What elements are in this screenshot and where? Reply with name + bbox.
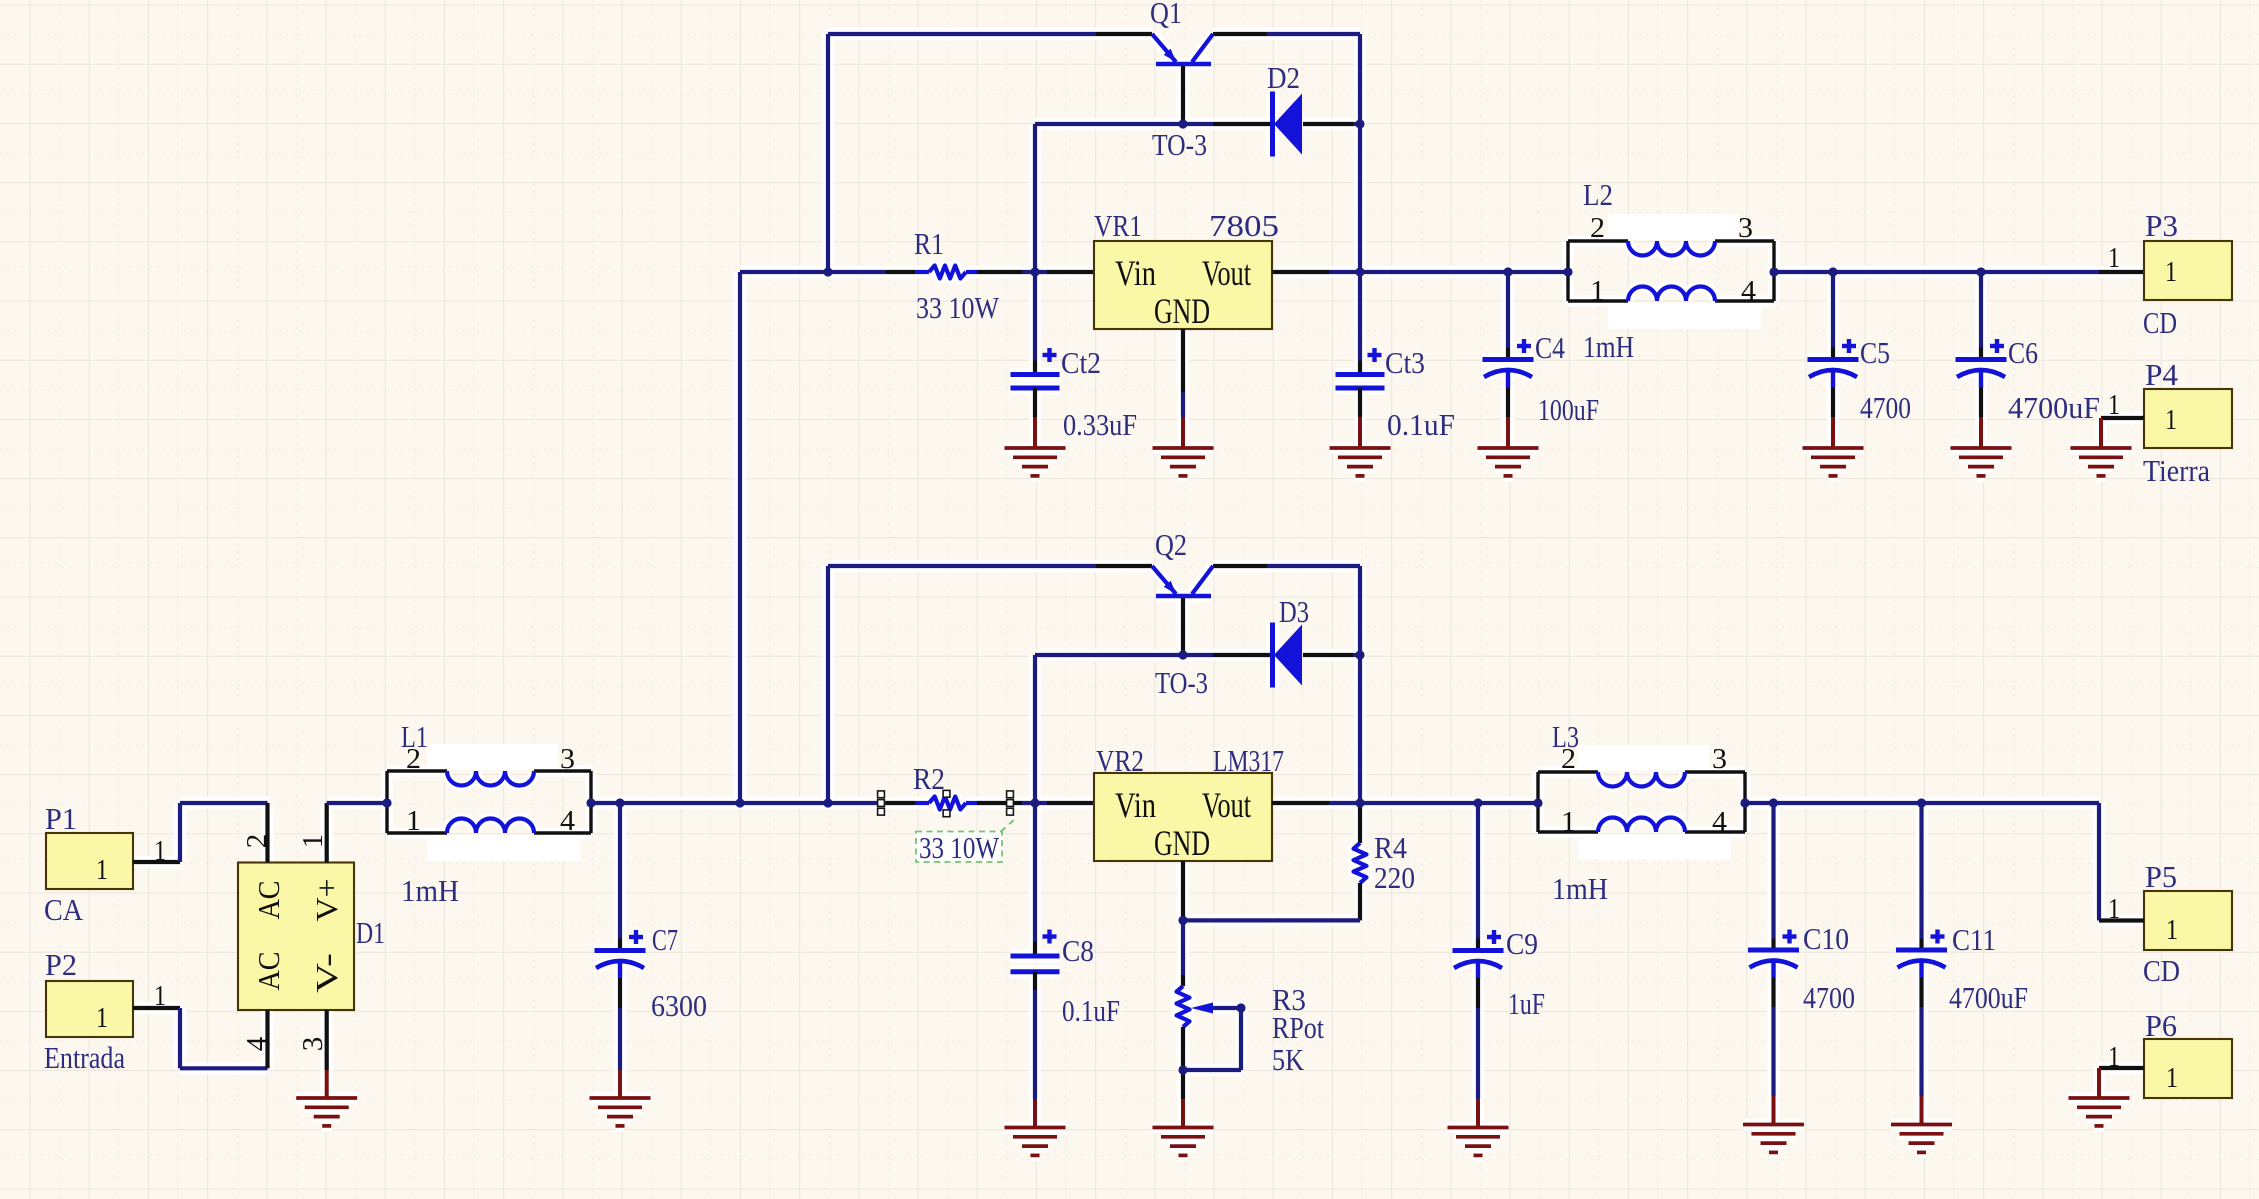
inductor L3: [1538, 745, 1745, 860]
pin 1 label inside P3: [2165, 256, 2177, 288]
label C5: [1860, 335, 1890, 370]
ground C11: [1891, 1096, 1952, 1152]
svg-text:1: 1: [2165, 256, 2177, 288]
label CA (P1): [44, 892, 84, 927]
wire D1 pin1 to L1: [327, 801, 387, 805]
label L2 value 1mH: [1583, 329, 1634, 364]
svg-text:1: 1: [2108, 1041, 2120, 1073]
label D2: [1267, 60, 1300, 95]
capacitor C8: [1011, 803, 1060, 1099]
label 7805: [1209, 208, 1279, 243]
pin 1 (P1) wire: [133, 860, 180, 864]
label Q2: [1155, 527, 1187, 562]
svg-text:Vin: Vin: [1115, 785, 1156, 825]
label TO-3 (Q1): [1152, 127, 1207, 162]
wire P2 to D1 pin4: [180, 1008, 268, 1068]
label C7 value 6300: [651, 988, 707, 1023]
pin name V- (D1): [309, 953, 344, 993]
junction D3-right node: [1355, 650, 1364, 659]
resistor R4: [1354, 803, 1367, 920]
capacitor C9: [1453, 803, 1504, 1099]
svg-text:1: 1: [1561, 806, 1576, 838]
svg-text:4: 4: [1712, 806, 1728, 838]
svg-text:C10: C10: [1803, 921, 1849, 956]
svg-text:P3: P3: [2145, 208, 2178, 243]
label C9: [1506, 926, 1538, 961]
svg-text:TO-3: TO-3: [1152, 127, 1207, 162]
junction C6 node: [1976, 267, 1985, 276]
wire bottom rail: [591, 801, 1094, 805]
pin 1 (L2): [1590, 275, 1605, 307]
wire top rail: [740, 270, 1094, 274]
svg-text:4700: 4700: [1803, 980, 1855, 1015]
resistor R2: [929, 797, 966, 810]
ground VR1: [1153, 417, 1214, 476]
svg-text:220: 220: [1374, 860, 1415, 895]
junction C4 node: [1503, 267, 1512, 276]
label C4 value 100uF: [1538, 392, 1599, 427]
svg-text:V-: V-: [309, 953, 344, 993]
svg-text:1: 1: [2165, 404, 2177, 436]
pin 1 (L3): [1561, 806, 1576, 838]
junction L2 right: [1769, 267, 1778, 276]
svg-text:AC: AC: [251, 881, 286, 920]
inductor L2: [1568, 214, 1774, 329]
svg-text:1: 1: [96, 854, 108, 886]
pin name Vout (VR2): [1202, 785, 1251, 825]
label Q1: [1150, 0, 1182, 30]
junction C10 node: [1769, 798, 1778, 807]
pin 1 (P5) wire: [2099, 918, 2144, 922]
svg-text:33 10W: 33 10W: [919, 830, 1000, 865]
label L3: [1552, 719, 1579, 754]
ground R3: [1153, 1099, 1214, 1155]
svg-text:33 10W: 33 10W: [916, 290, 1000, 325]
junction L1 left: [382, 798, 391, 807]
connector P4: [2144, 389, 2232, 448]
svg-text:R1: R1: [914, 226, 944, 261]
label P6: [2145, 1008, 2177, 1043]
svg-text:VR2: VR2: [1096, 743, 1144, 778]
svg-text:1: 1: [2108, 389, 2120, 421]
svg-text:D3: D3: [1279, 594, 1309, 629]
pin 2 (L1): [406, 743, 421, 775]
label TO-3 (Q2): [1155, 665, 1208, 700]
junction pot bottom node: [1178, 1065, 1187, 1074]
label L2: [1583, 177, 1613, 212]
svg-text:2: 2: [1590, 212, 1605, 244]
pin 2 (L3): [1561, 743, 1576, 775]
junction L1 right: [586, 798, 595, 807]
pin 1 label inside P2: [96, 1002, 108, 1034]
junction C5 node: [1828, 267, 1837, 276]
ground C9: [1448, 1099, 1509, 1155]
pin 2 (D1) wire: [265, 803, 269, 863]
svg-text:Tierra: Tierra: [2143, 453, 2210, 488]
svg-text:4700: 4700: [1860, 390, 1911, 425]
svg-text:RPot: RPot: [1272, 1010, 1324, 1045]
connector P3: [2144, 241, 2232, 300]
ground D1: [296, 1070, 357, 1126]
pin 1 (P4): [2108, 389, 2120, 421]
ground C8: [1005, 1099, 1066, 1155]
svg-text:CA: CA: [44, 892, 84, 927]
svg-text:1: 1: [2166, 1062, 2178, 1094]
label C6 value 4700uF: [2008, 390, 2100, 425]
label Entrada (P2): [44, 1040, 125, 1075]
label Ct3: [1385, 345, 1425, 380]
connector P1: [46, 833, 133, 889]
wire pot bottom: [1181, 1027, 1185, 1099]
potentiometer R3: [1177, 986, 1242, 1027]
wire Q2 left drop: [826, 566, 830, 803]
svg-text:1uF: 1uF: [1508, 986, 1545, 1021]
label R4: [1374, 830, 1407, 865]
svg-text:C8: C8: [1062, 933, 1094, 968]
svg-text:V+: V+: [309, 879, 344, 922]
junction Q2-drop node: [823, 798, 832, 807]
pin name Vin (VR2): [1115, 785, 1156, 825]
label C10 value 4700: [1803, 980, 1855, 1015]
wire pot wiper short: [1183, 1008, 1241, 1070]
pin 1 (P1): [154, 835, 166, 867]
junction D2-right node: [1355, 119, 1364, 128]
wire Q1 top rail: [828, 32, 1360, 36]
ground C5: [1803, 417, 1864, 476]
pin 2 (D1): [241, 834, 273, 849]
svg-text:0.33uF: 0.33uF: [1063, 407, 1137, 442]
svg-text:Ct2: Ct2: [1061, 345, 1101, 380]
label C11 value 4700uF: [1949, 980, 2028, 1015]
junction C11 node: [1917, 798, 1926, 807]
connector P5: [2144, 891, 2232, 950]
svg-text:1mH: 1mH: [401, 873, 459, 908]
svg-text:0.1uF: 0.1uF: [1062, 993, 1120, 1028]
svg-text:6300: 6300: [651, 988, 707, 1023]
svg-text:LM317: LM317: [1213, 743, 1284, 778]
label C4: [1535, 330, 1565, 365]
svg-text:D1: D1: [356, 915, 385, 950]
ground C4: [1478, 417, 1539, 476]
pin 4 (L2): [1741, 275, 1757, 307]
label R4 value 220: [1374, 860, 1415, 895]
label CD (P5): [2143, 953, 2180, 988]
label C8: [1062, 933, 1094, 968]
pin 1 (P3): [2108, 242, 2120, 274]
svg-text:2: 2: [406, 743, 421, 775]
svg-text:CD: CD: [2143, 953, 2180, 988]
label L1: [401, 719, 428, 754]
junction L2 left: [1563, 267, 1572, 276]
svg-text:1: 1: [2108, 242, 2120, 274]
capacitor C11: [1896, 803, 1947, 1096]
pin name GND (VR1): [1154, 291, 1210, 331]
inductor L1: [387, 744, 591, 861]
label C5 value 4700: [1860, 390, 1911, 425]
svg-text:1: 1: [154, 980, 166, 1012]
wire top rail right: [1774, 270, 2144, 274]
pin 1 (P2) wire: [133, 1006, 180, 1010]
wire Vout2: [1272, 801, 1538, 805]
ground C6: [1951, 417, 2012, 476]
label C11: [1952, 922, 1996, 957]
ground P4: [2071, 418, 2132, 476]
pin 3 (L3): [1712, 743, 1727, 775]
junction main-drop node: [735, 798, 744, 807]
label CD (P3): [2143, 305, 2177, 340]
label P5: [2145, 859, 2177, 894]
wire Q2 top rail: [828, 564, 1360, 568]
svg-text:1: 1: [297, 834, 329, 849]
svg-text:C11: C11: [1952, 922, 1996, 957]
pin name V+ (D1): [309, 879, 344, 922]
pin 4 (L1): [560, 805, 576, 837]
ground C10: [1743, 1096, 1804, 1152]
pin 3 (D1): [297, 1037, 329, 1052]
label D1: [356, 915, 385, 950]
pin 1 label inside P4: [2165, 404, 2177, 436]
label Ct3 value 0.1uF: [1387, 407, 1455, 442]
label R3 value 5K: [1272, 1042, 1305, 1077]
wire adj to pot: [1181, 920, 1185, 986]
svg-text:P2: P2: [45, 947, 77, 982]
label C8 value 0.1uF: [1062, 993, 1120, 1028]
svg-text:1: 1: [2166, 914, 2178, 946]
wire Q1 left drop: [826, 34, 830, 272]
svg-text:R2: R2: [913, 761, 945, 796]
svg-text:0.1uF: 0.1uF: [1387, 407, 1455, 442]
svg-text:1: 1: [96, 1002, 108, 1034]
pin 1 (P4) wire: [2101, 416, 2144, 420]
svg-text:P1: P1: [45, 801, 77, 836]
svg-text:1: 1: [2108, 893, 2120, 925]
label C7: [652, 922, 678, 957]
svg-text:Vin: Vin: [1115, 253, 1156, 293]
junction C7 node: [615, 798, 624, 807]
pin 1 (P5): [2108, 893, 2120, 925]
diode D3: [1273, 623, 1303, 688]
pin name AC bottom (D1): [251, 952, 286, 991]
junction adj node: [1178, 916, 1187, 925]
svg-text:VR1: VR1: [1094, 208, 1142, 243]
label C10: [1803, 921, 1849, 956]
svg-text:Ct3: Ct3: [1385, 345, 1425, 380]
bridge rectifier D1 body: [238, 863, 354, 1011]
wire bottom rail right: [1745, 803, 2099, 921]
svg-text:Vout: Vout: [1202, 253, 1251, 293]
pin GND (VR1) wire: [1181, 329, 1185, 417]
svg-text:1: 1: [406, 805, 421, 837]
pin 3 (L1): [560, 743, 575, 775]
junction L3 left: [1533, 798, 1542, 807]
pin 1 (P6) wire: [2099, 1066, 2144, 1070]
svg-text:5K: 5K: [1272, 1042, 1305, 1077]
pin GND (VR2) wire: [1181, 861, 1185, 920]
svg-text:TO-3: TO-3: [1155, 665, 1208, 700]
svg-text:1: 1: [154, 835, 166, 867]
svg-text:4: 4: [560, 805, 576, 837]
pin 3 (L2): [1738, 212, 1753, 244]
ground P6: [2069, 1068, 2130, 1126]
svg-text:C9: C9: [1506, 926, 1538, 961]
label Ct2 value 0.33uF: [1063, 407, 1137, 442]
label LM317: [1213, 743, 1284, 778]
svg-text:C4: C4: [1535, 330, 1565, 365]
label P3: [2145, 208, 2178, 243]
pin 1 (P2): [154, 980, 166, 1012]
label R1: [914, 226, 944, 261]
ground Ct2: [1005, 417, 1066, 476]
junction Vin1 node: [1030, 267, 1039, 276]
label R3 RPot: [1272, 1010, 1324, 1045]
svg-text:2: 2: [1561, 743, 1576, 775]
label VR1: [1094, 208, 1142, 243]
capacitor C4: [1483, 272, 1534, 417]
label L1 value 1mH: [401, 873, 459, 908]
regulator VR2 body: [1094, 773, 1272, 861]
pin 1 label inside P5: [2166, 914, 2178, 946]
label R3: [1272, 982, 1306, 1017]
wire Vout1: [1272, 270, 1568, 274]
junction Vout1 node: [1355, 267, 1364, 276]
label P4: [2145, 357, 2178, 392]
svg-text:GND: GND: [1154, 823, 1210, 863]
svg-text:4700uF: 4700uF: [2008, 390, 2100, 425]
diode D2: [1273, 92, 1303, 157]
svg-text:CD: CD: [2143, 305, 2177, 340]
capacitor Ct2: [1011, 272, 1060, 417]
capacitor C7: [595, 803, 646, 1070]
svg-text:4: 4: [241, 1036, 273, 1051]
svg-text:Entrada: Entrada: [44, 1040, 125, 1075]
svg-text:C5: C5: [1860, 335, 1890, 370]
svg-text:GND: GND: [1154, 291, 1210, 331]
label C6: [2008, 335, 2038, 370]
pin 4 (L3): [1712, 806, 1728, 838]
transistor Q1: [1152, 34, 1213, 64]
label VR2: [1096, 743, 1144, 778]
svg-text:C6: C6: [2008, 335, 2038, 370]
pin name Vout (VR1): [1202, 253, 1251, 293]
svg-text:P6: P6: [2145, 1008, 2177, 1043]
junction Q1-drop node: [823, 267, 832, 276]
pin 1 (P6): [2108, 1041, 2120, 1073]
svg-text:4: 4: [1741, 275, 1757, 307]
selection handles R2: [878, 790, 1014, 816]
svg-text:3: 3: [560, 743, 575, 775]
connector P2: [46, 981, 133, 1037]
svg-text:D2: D2: [1267, 60, 1300, 95]
pin 4 (D1) wire: [265, 1010, 269, 1068]
pin 2 (L2): [1590, 212, 1605, 244]
pin Q1 base: [1181, 66, 1185, 124]
pin name Vin (VR1): [1115, 253, 1156, 293]
wire P1 to D1 pin2: [180, 803, 268, 862]
wire Q1 right drop: [1358, 34, 1362, 272]
pin 4 (D1): [241, 1036, 273, 1051]
wire Q2 right drop: [1358, 566, 1362, 803]
capacitor C10: [1748, 803, 1799, 1096]
pin 1 (L1): [406, 805, 421, 837]
pin 3 (D1) wire: [325, 1010, 329, 1070]
svg-text:3: 3: [1712, 743, 1727, 775]
svg-text:1mH: 1mH: [1583, 329, 1634, 364]
svg-text:7805: 7805: [1209, 208, 1279, 243]
svg-text:100uF: 100uF: [1538, 392, 1599, 427]
junction L3 right: [1740, 798, 1749, 807]
regulator VR1 body: [1094, 241, 1272, 329]
junction Vout2 node: [1355, 798, 1364, 807]
svg-text:Q2: Q2: [1155, 527, 1187, 562]
svg-text:3: 3: [1738, 212, 1753, 244]
pin 1 label inside P6: [2166, 1062, 2178, 1094]
pin 1 label inside P1: [96, 854, 108, 886]
svg-text:P4: P4: [2145, 357, 2178, 392]
svg-text:C7: C7: [652, 922, 678, 957]
wire adj net: [1183, 918, 1360, 922]
wire D2 net: [1035, 124, 1360, 272]
ground Ct3: [1330, 417, 1391, 476]
svg-text:1mH: 1mH: [1552, 871, 1608, 906]
junction Q2 base node: [1178, 650, 1187, 659]
svg-text:AC: AC: [251, 952, 286, 991]
svg-text:2: 2: [241, 834, 273, 849]
junction wiper node: [1236, 1003, 1245, 1012]
label R1 value 33 10W: [916, 290, 1000, 325]
pin name AC top (D1): [251, 881, 286, 920]
label P2: [45, 947, 77, 982]
svg-text:Vout: Vout: [1202, 785, 1251, 825]
svg-text:4700uF: 4700uF: [1949, 980, 2028, 1015]
svg-text:P5: P5: [2145, 859, 2177, 894]
wire top rail left: [738, 272, 742, 803]
label Ct2: [1061, 345, 1101, 380]
svg-text:1: 1: [1590, 275, 1605, 307]
pin 1 (D1) wire: [325, 803, 329, 863]
label C9 value 1uF: [1508, 986, 1545, 1021]
resistor R1: [929, 266, 966, 279]
svg-text:3: 3: [297, 1037, 329, 1052]
capacitor C5: [1808, 272, 1859, 417]
capacitor C6: [1956, 272, 2007, 417]
wire D3 net: [1035, 655, 1360, 803]
pin 1 (D1): [297, 834, 329, 849]
pin name GND (VR2): [1154, 823, 1210, 863]
connector P6: [2144, 1039, 2232, 1098]
pin Q2 base: [1181, 598, 1185, 655]
label L3 value 1mH: [1552, 871, 1608, 906]
label Tierra (P4): [2143, 453, 2210, 488]
transistor Q2: [1152, 566, 1213, 596]
label P1: [45, 801, 77, 836]
junction C9 node: [1473, 798, 1482, 807]
label R2: [913, 761, 945, 796]
label R2 value 33 10W: [916, 818, 1016, 865]
label D3: [1279, 594, 1309, 629]
junction Q1 base node: [1178, 119, 1187, 128]
svg-text:L2: L2: [1583, 177, 1613, 212]
capacitor Ct3: [1336, 272, 1385, 417]
ground C7: [590, 1070, 651, 1126]
junction Vin2 node: [1030, 798, 1039, 807]
svg-text:Q1: Q1: [1150, 0, 1182, 30]
